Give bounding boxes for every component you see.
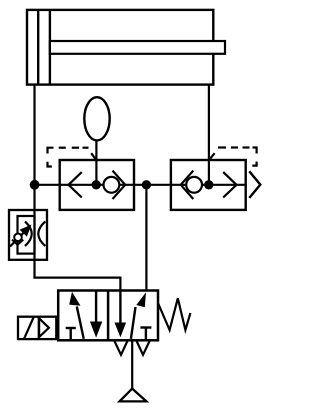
V2 exhaust arrowhead [223,172,236,197]
V1 exhaust arrowhead [69,172,82,197]
V2 internal node dot [204,180,213,189]
V4 left box down arrow [90,291,102,338]
V1 top port stem [95,141,97,185]
flow control valve V3 body [9,210,47,260]
solenoid coil [18,317,56,339]
wire node B down to valve port 2 [145,185,147,291]
V3 restrictor arcs [25,222,45,247]
node A junction dot [30,180,40,190]
V3 check valve ball [14,234,22,242]
V2 check valve seat [181,171,194,199]
wire main horizontal line [35,184,246,186]
cylinder barrel [27,10,213,85]
valve V2 body (right quick-exhaust valve) [171,160,246,210]
wire cap-end port down to node A [33,84,35,185]
return spring [158,298,190,330]
V3 adjustment arrow [10,225,32,247]
piston [38,10,50,85]
pin arrow into V2 top port [209,153,214,160]
V1 internal node dot [92,180,101,189]
exhaust port 3 triangle [137,341,150,355]
V4 left box diagonal arrow [69,292,84,339]
V1 check valve seat [113,171,126,199]
V4 right box down arrow [115,291,127,338]
V2 pilot dashed line [218,148,257,166]
exhaust port 5 triangle [114,341,127,355]
solenoid armature triangle [39,318,49,337]
V4 right box diagonal arrow [131,292,146,339]
exhaust triangle at supply line [120,389,147,402]
V3 check valve seat [12,240,23,245]
valve V4 5/2 body [58,291,158,341]
V1 pilot dashed line [48,148,89,167]
V1 check valve ball [104,177,120,193]
V4 left box blocked port T [66,328,76,340]
V3 bypass loop [18,216,35,254]
V2 check valve ball [186,177,202,193]
valve V1 body (left quick-exhaust valve) [60,160,134,210]
silencer ellipse on V1 [84,97,109,140]
V3 through line [33,210,35,260]
wire rod-end port down into valve V2 [208,84,210,185]
V4 right box blocked port T [140,328,151,341]
node B junction dot [142,180,151,189]
piston rod [50,41,225,54]
V1 stem arrowhead [91,153,96,160]
wire node A down to flow control [33,185,35,210]
wire flow control to valve port 4 [35,260,121,291]
wire supply port 1 down [131,340,133,388]
V2 exhaust chevron [249,171,260,198]
